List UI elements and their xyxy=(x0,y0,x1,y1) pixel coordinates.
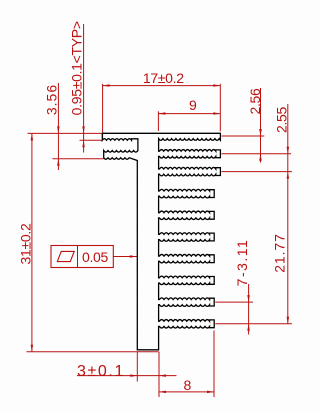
dim 2.55 xyxy=(287,104,289,172)
dimension graphics (red) xyxy=(27,24,293,397)
dim 17 xyxy=(103,85,221,87)
ext 3/8 shared xyxy=(158,352,160,397)
svg-text:0.95±0.1<TYP>: 0.95±0.1<TYP> xyxy=(69,21,85,115)
svg-text:2.56: 2.56 xyxy=(247,88,263,115)
fcf frame xyxy=(51,246,113,268)
svg-text:8: 8 xyxy=(184,377,192,393)
ext fin9 center xyxy=(215,301,253,303)
fcf leader xyxy=(113,256,137,258)
ext fin10 center xyxy=(215,323,292,325)
svg-text:31±0.2: 31±0.2 xyxy=(17,223,33,264)
svg-text:3±0.1: 3±0.1 xyxy=(77,363,125,380)
ext 3 left xyxy=(136,352,138,382)
dim 2.56 xyxy=(260,88,262,163)
dim 3.56 xyxy=(57,83,59,170)
ext 3.56 lower xyxy=(53,158,104,160)
svg-text:7-3.11: 7-3.11 xyxy=(234,239,250,287)
ext top-left xyxy=(28,132,103,134)
dim 0.95 xyxy=(83,24,85,153)
dim 21.77 xyxy=(287,172,289,324)
svg-text:21.77: 21.77 xyxy=(271,233,287,273)
ext fin3 center xyxy=(222,171,293,173)
ext 17 left xyxy=(102,84,104,140)
ext fin1 center xyxy=(222,135,265,137)
dim 31 xyxy=(31,133,33,351)
ext 9 left xyxy=(157,111,159,131)
svg-text:17±0.2: 17±0.2 xyxy=(143,70,184,86)
svg-text:2.55: 2.55 xyxy=(273,106,289,133)
ext bottom xyxy=(27,351,159,353)
ext fin2 center xyxy=(222,153,292,155)
dim 7-3.11 xyxy=(248,284,250,335)
heatsink profile outline xyxy=(102,133,220,349)
svg-text:0.05: 0.05 xyxy=(82,249,109,265)
svg-text:9: 9 xyxy=(189,97,197,113)
svg-text:3.56: 3.56 xyxy=(44,84,60,115)
ext 8 right xyxy=(213,331,215,398)
dim 9 xyxy=(158,113,220,115)
dim 8 xyxy=(159,391,214,393)
ext 0.95 lower xyxy=(80,139,103,141)
dim 3 xyxy=(77,375,177,377)
ext 17 right xyxy=(219,84,221,132)
